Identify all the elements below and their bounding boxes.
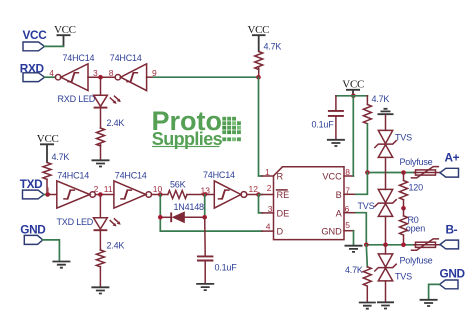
svg-text:Polyfuse: Polyfuse [400,157,433,167]
svg-text:VCC: VCC [54,24,76,36]
svg-text:A: A [336,208,343,218]
wire GND flag to ground [43,240,60,261]
svg-text:GND: GND [440,266,466,280]
svg-text:4: 4 [266,222,271,232]
wire node10 down (to diode and D line) [159,195,161,232]
junction node 56K left [158,192,163,197]
ground (IC pin 5) [345,246,363,252]
ground (0.1uF cap) [196,284,214,290]
wire VCC flag to VCC power [45,45,64,47]
ground (TXD LED resistor) [91,287,109,293]
ground (RXD LED resistor) [92,160,110,166]
junction A row left [364,243,369,248]
resistor 4.7K (TXD pull-up) [43,152,69,195]
svg-text:TVS: TVS [358,201,375,211]
resistor 56K [160,180,187,199]
inverter U1A 74HC14 (TXD stage 1) [57,170,96,208]
ground (4.7K pull-down) [359,303,376,309]
svg-text:VCC: VCC [342,79,364,91]
svg-text:1: 1 [265,167,270,177]
junction node TXD [45,192,50,197]
svg-text:0.1uF: 0.1uF [215,263,238,273]
junction diode left [158,215,163,220]
junction node R output [256,75,261,80]
svg-text:74HC14: 74HC14 [115,170,147,180]
TVS diode D3 (B to A) [375,173,396,245]
svg-text:B: B [336,190,342,200]
power VCC symbol (right rail) [342,79,364,96]
ground (right GND flag) [420,300,438,306]
svg-text:74HC14: 74HC14 [110,53,142,63]
wire VCC rail [336,95,368,97]
svg-text:RE: RE [277,190,290,200]
svg-text:D: D [277,227,284,237]
capacitor 0.1uF (bypass) [312,96,344,140]
TVS diode D4 (A to ground) [375,245,396,302]
wire RE node to pin 2 [259,194,263,196]
svg-text:TXD: TXD [20,177,43,191]
pin name RE (active low) [277,190,290,200]
net flag A+ [440,150,460,177]
svg-text:Polyfuse: Polyfuse [400,255,433,265]
LED RXD LED [58,77,121,128]
svg-text:56K: 56K [170,180,186,190]
wire TXD flag to node [44,194,48,196]
junction 120/R0 [401,206,406,211]
junction diode right [202,215,207,220]
svg-text:74HC14: 74HC14 [63,53,95,63]
svg-text:R: R [277,171,284,181]
wire pin 7 to B row [356,173,367,195]
wire pin2 to pin11 [95,194,114,196]
ground bar symbol (above TVS1) [378,109,394,114]
svg-text:Supplies: Supplies [152,129,223,149]
svg-text:2: 2 [267,183,272,193]
ground (bypass cap) [327,140,345,146]
svg-text:12: 12 [249,184,259,194]
power VCC symbol (TXD pull-up) [37,133,59,163]
junction node 56K right [202,192,207,197]
svg-text:TXD LED: TXD LED [57,217,94,227]
svg-text:2: 2 [94,184,99,194]
junction B row right [401,170,406,175]
svg-text:4.7K: 4.7K [345,265,363,275]
wire RXD flag to U1F [45,76,56,78]
svg-text:TVS: TVS [395,132,412,142]
svg-text:VCC: VCC [322,171,342,181]
polyfuse F1 (A+ line) [400,157,441,178]
wire D line to IC pin 4 [160,230,262,232]
ground (left GND flag) [52,262,70,268]
diode 1N4148 [160,202,204,223]
junction A row right [401,243,406,248]
svg-text:0.1uF: 0.1uF [312,119,335,129]
pin 1 stub [48,194,57,196]
junction node RXD LED tap [98,75,103,80]
svg-text:5: 5 [345,220,350,230]
TVS diode D2 (line B to ground) [375,115,396,172]
inverter U1F 74HC14 (RXD output stage) [55,53,94,90]
resistor R0 open [400,208,426,245]
pin 10 stub [152,194,161,196]
svg-text:3: 3 [268,204,273,214]
wire 4.7K to B row [366,124,368,172]
net flag RXD [20,62,45,82]
wire pin9 to R pull-up node [153,76,258,78]
wire pin3 to pin8 [88,76,115,78]
svg-text:TVS: TVS [395,271,412,281]
svg-text:DE: DE [277,208,290,218]
svg-text:7: 7 [345,185,350,195]
power VCC symbol (top left) [54,24,76,46]
capacitor 0.1uF (RC delay) [197,217,237,283]
resistor 4.7K (A line pull-down) [345,245,371,302]
net flag GND (right) [440,266,466,288]
svg-text:2.4K: 2.4K [107,118,125,128]
junction node RE/DE [256,192,261,197]
wire pin 6 to A row [356,213,366,245]
svg-text:8: 8 [109,68,114,78]
wire R node down to IC pin 1 [259,77,263,176]
net flag GND (left) [20,222,46,244]
svg-text:A+: A+ [445,150,460,164]
pin 9 stub [147,76,154,78]
net flag TXD [20,177,44,199]
svg-text:RXD LED: RXD LED [58,94,96,104]
resistor 2.4K (RXD LED) [97,118,125,160]
svg-text:VCC: VCC [248,24,270,36]
resistor 4.7K (B line pull-up) [363,94,389,124]
svg-text:1N4148: 1N4148 [174,202,205,212]
inverter U1D 74HC14 (RXD input stage) [110,53,147,90]
net flag B- [440,223,459,249]
svg-text:VCC: VCC [23,28,48,42]
svg-text:VCC: VCC [37,133,59,145]
wire pin 5 to ground [353,231,355,246]
svg-text:open: open [406,224,425,234]
svg-text:B-: B- [446,223,458,237]
net flag VCC (top left) [23,28,48,51]
resistor 120 (termination) [400,173,424,209]
polyfuse F2 (B- line) [400,239,441,265]
wire 56K to pin13 [187,194,214,196]
wire A row [366,244,414,246]
wire node13 down (to diode and cap) [204,195,206,218]
svg-text:4.7K: 4.7K [372,94,390,104]
wire RE node down to DE pin 3 [259,195,263,213]
ground (bottom TVS) [377,302,394,308]
svg-text:120: 120 [409,182,424,192]
wire pin12 to RE node [247,194,259,196]
LED TXD LED [57,195,121,251]
junction B row left [365,170,370,175]
power VCC symbol (RXD pull-up) [248,24,270,52]
svg-text:74HC14: 74HC14 [203,170,235,180]
svg-text:4.7K: 4.7K [52,152,70,162]
svg-text:11: 11 [104,184,113,194]
svg-text:4.7K: 4.7K [264,42,282,52]
junction A row middle [383,243,388,248]
wire GND flag to ground [429,284,440,299]
inverter U1E 74HC14 (TXD stage 2) [114,170,152,208]
svg-text:2.4K: 2.4K [107,241,125,251]
inverter U1B 74HC14 (enable driver) [203,170,247,208]
svg-text:GND: GND [321,227,342,237]
IC U2 RS-485 transceiver [262,167,356,240]
wire B row [367,172,414,174]
wire VCC rail down to pin 8 [352,96,354,176]
svg-text:GND: GND [20,222,46,236]
junction node TXD LED tap [98,192,103,197]
Proto Supplies logo [152,106,241,149]
svg-text:8: 8 [345,167,350,177]
resistor 4.7K (RXD pull-up) [255,42,282,77]
svg-text:4: 4 [49,68,54,78]
svg-text:74HC14: 74HC14 [57,170,89,180]
junction node VCC rail [351,94,356,99]
svg-text:6: 6 [345,204,350,214]
resistor 2.4K (TXD LED) [96,241,124,287]
